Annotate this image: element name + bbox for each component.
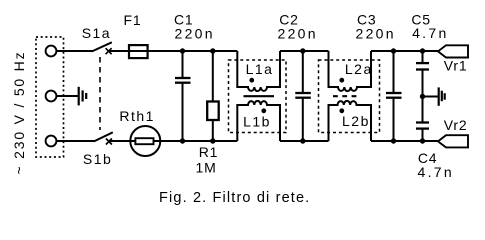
- capacitor C4: [422, 129, 424, 141]
- choke L2 coupling box (dashed): [319, 60, 380, 133]
- L2b phase dot: [339, 108, 344, 113]
- svg-text:S1b: S1b: [83, 151, 112, 167]
- svg-text:Vr1: Vr1: [444, 58, 468, 74]
- capacitor C1: [182, 51, 184, 78]
- L1a phase dot: [249, 78, 254, 83]
- inlet pin earth (middle circle): [46, 91, 57, 102]
- capacitor C5: [422, 51, 424, 63]
- wire L1b to L2b (bottom rail): [280, 140, 329, 142]
- svg-text:L1b: L1b: [243, 114, 271, 130]
- choke L1 coupling box (dashed): [229, 60, 287, 133]
- inductor L2b: [329, 101, 372, 141]
- L1b phase dot: [261, 108, 266, 113]
- resistor R1: [212, 51, 214, 102]
- connector Vr1: [438, 45, 468, 57]
- node C2 top: [300, 48, 305, 53]
- node C2 bottom: [300, 138, 305, 143]
- wire L1a to L2a (top rail): [280, 50, 329, 52]
- node C1 bottom: [180, 138, 185, 143]
- node C4 bottom: [420, 138, 425, 143]
- wire S1b to Rth1: [109, 140, 131, 142]
- wire live pin to S1a: [57, 50, 93, 52]
- L1 core: [244, 95, 275, 97]
- capacitor C3: [393, 51, 395, 93]
- node C1 top: [180, 48, 185, 53]
- svg-text:220n: 220n: [175, 25, 215, 41]
- node C3 top: [391, 48, 396, 53]
- ground (inlet earth): [79, 87, 87, 106]
- svg-text:220n: 220n: [356, 25, 396, 41]
- wire L2b to Vr2 (bottom rail): [371, 140, 438, 142]
- node C5/C4 midpoint to ground: [420, 94, 425, 99]
- svg-text:1M: 1M: [196, 159, 217, 175]
- svg-text:4.7n: 4.7n: [418, 164, 454, 180]
- connector Vr2: [438, 135, 468, 147]
- svg-text:220n: 220n: [278, 25, 318, 41]
- svg-text:Fig. 2. Filtro di rete.: Fig. 2. Filtro di rete.: [159, 190, 310, 206]
- node C3 bottom: [391, 138, 396, 143]
- node C5 top: [420, 48, 425, 53]
- wire L2a to Vr1 (top rail): [371, 50, 438, 52]
- switch S1b: [94, 132, 113, 144]
- svg-text:S1a: S1a: [82, 25, 111, 41]
- svg-text:L2a: L2a: [345, 61, 373, 77]
- mains inlet connector J1 dotted enclosure: [36, 37, 64, 157]
- svg-text:L1a: L1a: [246, 61, 274, 77]
- svg-text:R1: R1: [199, 144, 219, 160]
- svg-text:Vr2: Vr2: [444, 117, 468, 133]
- svg-text:~ 230 V / 50 Hz: ~ 230 V / 50 Hz: [11, 51, 27, 175]
- inlet pin live (top circle): [46, 46, 57, 57]
- svg-text:L2b: L2b: [342, 113, 370, 129]
- switch S1a: [92, 42, 112, 54]
- wire earth pin to ground: [57, 95, 79, 97]
- svg-text:4.7n: 4.7n: [412, 25, 448, 41]
- wire neutral pin to S1b: [57, 140, 95, 142]
- L2 core (dashed): [333, 95, 358, 97]
- ground (C5/C4 midpoint): [439, 87, 445, 105]
- fuse F1: [129, 50, 148, 52]
- thermistor Rth1: [131, 140, 160, 142]
- wire Rth1 to L1b (bottom rail): [160, 140, 237, 142]
- switch linkage dashed: [99, 57, 101, 130]
- L2a phase dot: [339, 78, 344, 83]
- inductor L1a: [237, 51, 280, 91]
- wire F1 to L1a (top rail): [148, 50, 238, 52]
- inlet pin neutral (bottom circle): [46, 136, 57, 147]
- wire midpoint to ground: [423, 96, 439, 98]
- node R1 bottom: [210, 138, 215, 143]
- svg-text:F1: F1: [124, 12, 142, 28]
- inductor L1b: [237, 101, 280, 141]
- svg-text:Rth1: Rth1: [119, 108, 155, 124]
- inductor L2a: [329, 51, 372, 91]
- wire S1a to F1: [109, 50, 129, 52]
- capacitor C2: [302, 51, 304, 93]
- node R1 top: [210, 48, 215, 53]
